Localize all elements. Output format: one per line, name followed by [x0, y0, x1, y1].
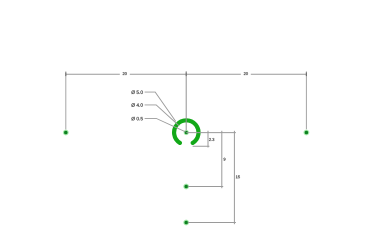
- label 20 (right): [244, 72, 248, 75]
- label 2.3: [209, 138, 214, 141]
- tick left end: [65, 72, 67, 76]
- dimension 2.3 line: [207, 131, 209, 148]
- label Ø 4.0: [131, 103, 142, 107]
- wire: center vertical line: [185, 71, 187, 130]
- label Ø 5.0: [131, 90, 142, 94]
- tick right end: [305, 72, 307, 76]
- wire: 9 reference to pad dot: [188, 186, 223, 188]
- leader Ø5.0: [145, 92, 176, 121]
- pad dot bottom: [183, 220, 189, 226]
- leader Ø4.0: [145, 105, 180, 126]
- label Ø 0.5: [131, 117, 142, 121]
- label 15: [236, 175, 240, 178]
- wire: 2.3 reference to arc tip: [193, 145, 210, 147]
- pad P1 center drill dot Ø0.5: [184, 130, 189, 135]
- label 9: [224, 158, 226, 161]
- wire: extension line left: [65, 71, 67, 129]
- pad dot bottom middle: [183, 184, 189, 190]
- pad dot left: [63, 130, 69, 136]
- wire: horizontal line from pad center to right: [186, 132, 236, 134]
- wire: 15 reference to pad dot: [188, 222, 236, 224]
- pad P1 annular ring Ø5.0/Ø4.0 open at bottom: [174, 120, 198, 143]
- wire: top dimension line 20+20: [66, 73, 306, 75]
- tick center: [185, 72, 187, 76]
- wire: extension line right: [305, 71, 307, 129]
- dimension 15 line: [233, 131, 235, 224]
- dimension 9 line: [221, 131, 223, 188]
- pad dot right: [304, 130, 310, 136]
- leader Ø0.5: [145, 118, 186, 131]
- label 20 (left): [123, 72, 127, 75]
